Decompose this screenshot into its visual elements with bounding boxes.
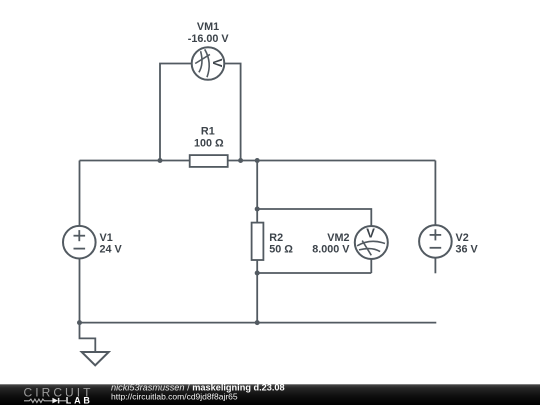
svg-text:V: V (210, 58, 225, 67)
svg-text:-16.00 V: -16.00 V (188, 33, 230, 45)
svg-text:VM1: VM1 (197, 21, 219, 33)
svg-text:V1: V1 (100, 232, 113, 244)
svg-text:50 Ω: 50 Ω (269, 243, 293, 255)
svg-text:LAB: LAB (66, 396, 93, 405)
svg-text:100 Ω: 100 Ω (194, 138, 224, 150)
svg-text:V: V (366, 226, 375, 241)
svg-text:V2: V2 (456, 232, 469, 244)
svg-text:36 V: 36 V (456, 243, 479, 255)
svg-text:24 V: 24 V (100, 243, 123, 255)
svg-text:8.000 V: 8.000 V (312, 243, 350, 255)
svg-text:http://circuitlab.com/cd9jd8f8: http://circuitlab.com/cd9jd8f8ajr65 (111, 391, 238, 401)
svg-text:R1: R1 (201, 126, 215, 138)
